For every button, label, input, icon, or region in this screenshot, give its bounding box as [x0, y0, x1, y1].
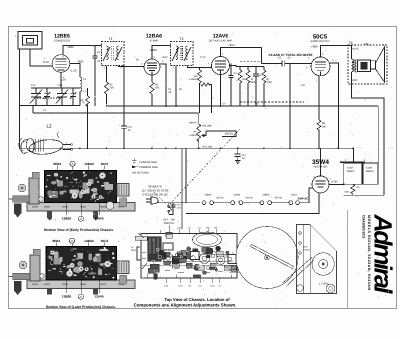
top view dense components: [148, 246, 229, 279]
ferrite rod antenna L2 drawing: [19, 131, 72, 156]
chassis bottom view early production: [9, 161, 136, 232]
svg-text:12AV6: 12AV6: [94, 217, 104, 221]
wire V4 plate to T3: [321, 46, 352, 57]
trimmer capacitor C1D: [70, 88, 76, 106]
wire V5 cathode to filter: [329, 183, 344, 185]
wire T2 primary down: [175, 66, 177, 107]
heater labels: [204, 193, 309, 200]
svg-text:22K: 22K: [110, 87, 115, 90]
svg-text:AUDIO OUTPUT: AUDIO OUTPUT: [310, 40, 330, 43]
svg-text:C6 AND C7 TOTAL 250 WHITE: C6 AND C7 TOTAL 250 WHITE: [269, 53, 314, 57]
oscillator coil L1: [80, 66, 82, 106]
dial cord assembly drawing: [236, 225, 337, 294]
top view gang capacitor: [148, 237, 162, 262]
wire filter feed: [377, 106, 379, 163]
svg-text:12BE6: 12BE6: [62, 217, 72, 221]
svg-text:12BA6: 12BA6: [84, 239, 94, 243]
wire T2 secondary to V3 grid: [188, 66, 212, 68]
dial cord dashed path: [152, 129, 240, 206]
svg-text:CHASSIS GND: CHASSIS GND: [139, 161, 157, 164]
svg-text:50MFD: 50MFD: [347, 170, 355, 173]
svg-text:+10V: +10V: [162, 56, 168, 59]
legend chassis gnd: [132, 159, 157, 164]
power plug P1: [146, 197, 169, 204]
chassis models vertical text: [362, 215, 372, 290]
legend common gnd: [132, 166, 158, 170]
label T1: [109, 37, 113, 41]
svg-text:+102V: +102V: [149, 48, 157, 52]
svg-text:T3: T3: [349, 41, 353, 45]
svg-text:12BE6: 12BE6: [262, 193, 270, 196]
svg-text:C15: C15: [127, 126, 132, 129]
resistor R7: [261, 48, 266, 107]
svg-text:+125V: +125V: [331, 180, 339, 183]
variable capacitor C1C: [56, 88, 68, 106]
svg-text:+88V: +88V: [77, 60, 84, 64]
dashed AVC feedback line: [240, 62, 304, 102]
wire V4 plate jog: [351, 46, 353, 60]
svg-text:1 MEG: 1 MEG: [189, 134, 197, 137]
top view loop ellipse: [193, 232, 222, 247]
svg-text:12BE6: 12BE6: [62, 295, 72, 299]
wire C13A to bus: [353, 148, 355, 163]
scan speckle (decorative): [10, 28, 394, 308]
wire V2 screen down: [160, 64, 166, 106]
heater string: [186, 188, 319, 214]
wire T1 secondary to V2 grid: [119, 66, 145, 67]
trimmer capacitor C1B: [44, 88, 50, 106]
capacitor C6: [253, 67, 259, 107]
svg-text:12BA6: 12BA6: [84, 162, 94, 166]
wire screen to bus: [337, 106, 339, 148]
svg-text:Components and Alignment Adjus: Components and Alignment Adjustments Sho…: [134, 302, 237, 307]
svg-text:-0.7V: -0.7V: [199, 56, 205, 59]
svg-text:C1A: C1A: [31, 84, 36, 87]
svg-text:1.5V: 1.5V: [60, 78, 66, 82]
tube V1 12BE6 converter: [52, 55, 70, 73]
wire antenna to ground bus: [19, 49, 21, 148]
tube V5 35W4 rectifier: [312, 176, 329, 193]
resistor R8 150 cathode: [317, 76, 321, 148]
dial text labels: [303, 246, 328, 286]
svg-text:0V: 0V: [136, 59, 139, 62]
top view caption: [134, 297, 237, 308]
svg-text:COMMON GND: COMMON GND: [139, 166, 158, 169]
dial pointer bar: [251, 245, 294, 269]
svg-text:1000: 1000: [344, 191, 350, 194]
svg-text:VOLUME: VOLUME: [202, 125, 213, 128]
svg-text:BLUE: BLUE: [352, 47, 358, 50]
tube V3 12AV6 det avc af: [212, 57, 230, 75]
output transformer T3: [352, 59, 357, 72]
voltage and value labels: [31, 43, 374, 209]
tuning gang top rail: [31, 87, 80, 89]
legend b return: [132, 172, 149, 175]
svg-text:-1.2V: -1.2V: [70, 69, 77, 73]
svg-text:0-1V: 0-1V: [43, 60, 49, 64]
svg-text:IF AMP: IF AMP: [150, 40, 159, 43]
junction dots: [60, 105, 354, 185]
capacitor C3: [93, 46, 98, 107]
top view tube circles: [142, 243, 242, 269]
wire T1 primary down: [106, 66, 108, 83]
divider schematic left: [181, 148, 183, 229]
svg-text:+: +: [345, 158, 347, 162]
svg-text:50C5: 50C5: [101, 239, 109, 243]
svg-text:CORD: CORD: [303, 249, 310, 252]
svg-text:1 TURN: 1 TURN: [319, 283, 328, 286]
wire V1 plate to T1: [63, 46, 102, 55]
switch S1: [168, 203, 172, 215]
svg-text:10K: 10K: [79, 99, 84, 102]
svg-text:30MFD: 30MFD: [366, 170, 374, 173]
resistor R3 2.2MEG: [198, 68, 212, 114]
top view bottom labels: [164, 278, 222, 288]
svg-text:+: +: [364, 158, 366, 162]
top view right label block: [224, 265, 242, 274]
wire bus drop: [185, 148, 187, 202]
variable capacitor C1A: [30, 88, 42, 106]
svg-text:ROD: ROD: [131, 249, 136, 252]
wire volume wiper green: [206, 131, 236, 137]
svg-text:Bottom View of (Early Producti: Bottom View of (Early Production) Chassi…: [44, 228, 114, 232]
label T2: [180, 37, 184, 41]
wire V1 cathode down: [60, 72, 62, 88]
capacitor C14: [235, 148, 241, 163]
svg-text:AMP AC: AMP AC: [297, 197, 310, 201]
svg-text:CHASSIS 5C3: CHASSIS 5C3: [362, 215, 366, 238]
power rating text: [142, 185, 169, 197]
svg-text:Admiral: Admiral: [369, 214, 397, 295]
cord lines: [283, 257, 315, 287]
label T3: [349, 41, 353, 45]
svg-text:12V AC: 12V AC: [216, 197, 224, 200]
label V4: [310, 34, 330, 44]
label L2: [46, 124, 52, 129]
svg-text:C1B: C1B: [58, 84, 63, 87]
speaker SP1: [348, 45, 387, 84]
svg-text:35W4: 35W4: [53, 162, 61, 166]
svg-text:50C5: 50C5: [101, 162, 109, 166]
resistor R5: [238, 67, 242, 107]
resistor R1 22K: [105, 82, 109, 106]
svg-text:C: C: [80, 217, 82, 221]
volume control R4 1 MEG: [197, 113, 206, 148]
resistor R2 osc grid: [86, 88, 90, 148]
svg-text:YELLOW: YELLOW: [202, 146, 213, 149]
capacitor C4: [229, 64, 234, 107]
wire 50C5 grid return: [289, 63, 291, 148]
IF transformer T1: [102, 42, 125, 66]
tube V2 12BA6 IF amp: [144, 59, 160, 75]
wire V1 screen: [70, 64, 80, 67]
label V1: [54, 34, 70, 43]
svg-text:GREEN: GREEN: [225, 132, 234, 135]
svg-text:SWITCH: SWITCH: [164, 222, 174, 225]
Admiral logo: [369, 214, 397, 295]
svg-text:(+B RETURN): (+B RETURN): [132, 172, 149, 175]
gang dashed link: [37, 97, 61, 99]
B+ rail: [107, 105, 379, 107]
label V5: [312, 159, 329, 169]
svg-text:C1A: C1A: [177, 227, 182, 230]
pulley: [312, 253, 334, 275]
svg-text:Top View of Chassis. Location: Top View of Chassis. Location of: [164, 297, 230, 302]
svg-text:RED: RED: [352, 79, 357, 82]
svg-text:.02: .02: [287, 57, 291, 60]
svg-text:L2: L2: [46, 124, 52, 129]
svg-text:37V AC: 37V AC: [274, 197, 282, 200]
svg-text:+95V: +95V: [228, 43, 235, 47]
label V2: [146, 34, 162, 43]
label V3: [209, 34, 233, 43]
chassis bottom view later production: [9, 238, 136, 309]
chassis top view drawing: [169, 225, 216, 234]
svg-text:12AV6: 12AV6: [233, 193, 240, 196]
svg-text:2.2MEG: 2.2MEG: [189, 78, 198, 81]
svg-text:WHITE: WHITE: [189, 122, 197, 125]
svg-text:C13A-B: C13A-B: [229, 265, 237, 268]
svg-text:T2: T2: [180, 37, 184, 41]
svg-text:150: 150: [155, 87, 160, 90]
svg-text:MEG: MEG: [251, 81, 256, 84]
pin number labels: [51, 53, 335, 182]
B minus bus: [20, 147, 354, 149]
wire V3 cathode down: [220, 75, 222, 107]
top view chassis outline: [137, 234, 237, 279]
top view ferrite rod: [131, 236, 147, 252]
svg-text:+98V: +98V: [311, 45, 318, 49]
resistor R3 cathode: [150, 75, 154, 106]
label M1 speaker: [364, 42, 368, 46]
svg-text:+7V: +7V: [300, 84, 305, 87]
wire V2 plate to T2: [152, 46, 171, 60]
svg-text:12AV6: 12AV6: [94, 295, 104, 299]
svg-text:C: C: [80, 295, 82, 299]
electrolytic C13: [340, 162, 384, 195]
AVC rail: [33, 106, 199, 114]
svg-text:RECTIFIER: RECTIFIER: [314, 166, 328, 169]
wire V4 screen: [330, 63, 338, 106]
capacitor C13 line cap: [169, 203, 176, 215]
svg-text:DET AVC & AF AMP: DET AVC & AF AMP: [209, 40, 233, 43]
svg-text:CONVERTER: CONVERTER: [54, 40, 70, 43]
svg-text:12BA6: 12BA6: [204, 193, 212, 196]
wire V5 plate up to bus: [320, 148, 322, 176]
wire cord to heater: [169, 202, 200, 204]
divider admiral strip: [346, 210, 348, 309]
svg-text:35W4: 35W4: [52, 239, 60, 243]
wire T3 primary bottom: [352, 72, 384, 195]
IF transformer T2: [171, 42, 194, 66]
svg-text:T1: T1: [109, 37, 113, 41]
coupling line with capacitor C5: [261, 60, 312, 66]
svg-text:470K: 470K: [267, 81, 273, 84]
off-on switch label: [163, 219, 175, 225]
off-on switch part: [166, 232, 173, 237]
svg-text:CYCLES AC OR DC: CYCLES AC OR DC: [142, 193, 168, 197]
top view component band: [138, 230, 243, 278]
svg-text:+88V: +88V: [67, 45, 74, 49]
svg-text:Bottom View of (Later Producti: Bottom View of (Later Production) Chassi…: [46, 305, 116, 309]
wire V3 diode network top: [230, 66, 265, 67]
svg-text:A: A: [72, 162, 74, 166]
cap bottom rail: [20, 105, 80, 107]
tube V4 50C5 output: [311, 57, 330, 76]
loop antenna L3: [18, 32, 42, 50]
wire antenna to V1 grid: [30, 49, 53, 66]
bracket plate: [297, 225, 337, 294]
svg-text:C14: C14: [242, 154, 247, 157]
resistor R6: [246, 67, 250, 107]
dial drum circle: [236, 227, 298, 289]
wire V3 plate up: [221, 48, 262, 57]
svg-text:A: A: [71, 239, 73, 243]
svg-text:24V AC: 24V AC: [244, 197, 253, 200]
capacitor C15: [121, 66, 127, 149]
svg-text:M1: M1: [364, 42, 368, 46]
svg-text:DIAL: DIAL: [303, 246, 309, 249]
svg-text:150: 150: [322, 126, 327, 129]
